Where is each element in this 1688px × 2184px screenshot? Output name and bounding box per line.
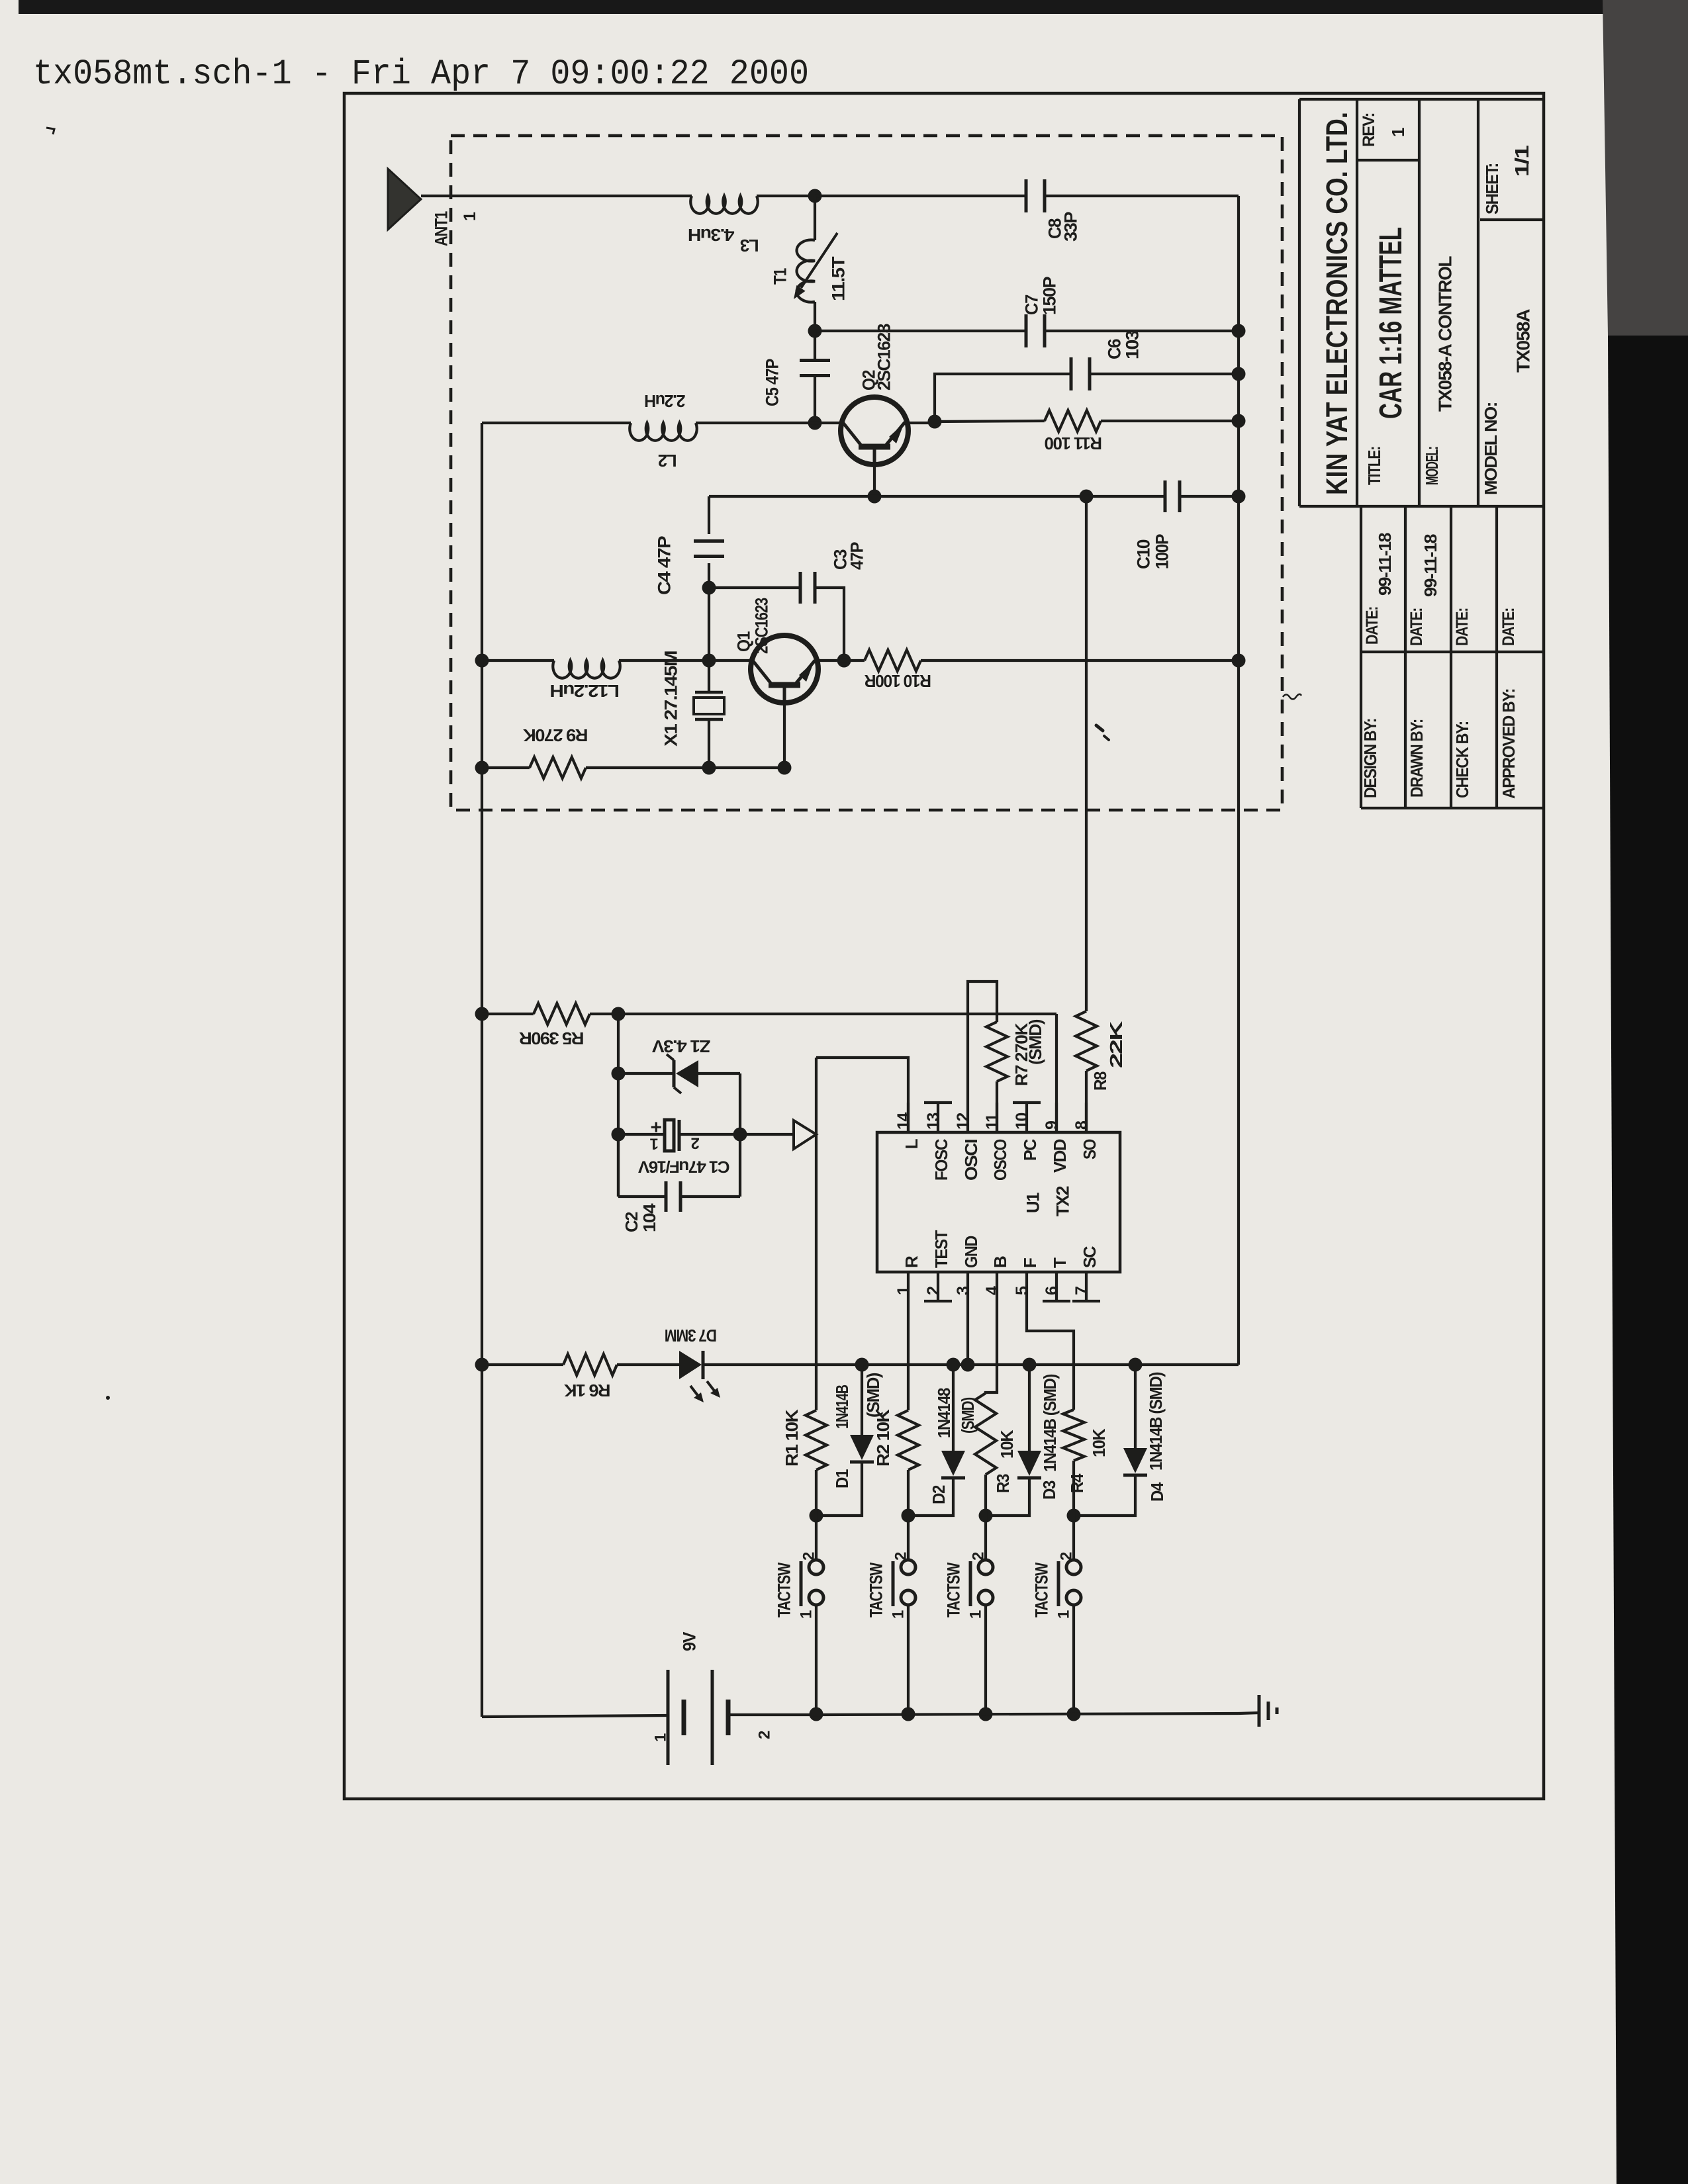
node: SW2/battery-rail junction xyxy=(902,1707,915,1721)
capacitor C6 xyxy=(1070,357,1073,390)
svg-text:F: F xyxy=(1020,1258,1040,1268)
svg-text:R11 100: R11 100 xyxy=(1045,433,1102,453)
node: D2 top junction xyxy=(947,1358,961,1372)
resistor R7 xyxy=(986,1022,1008,1081)
svg-text:47P: 47P xyxy=(847,542,867,570)
tact switch SW1 (TACTSW) xyxy=(809,1560,823,1574)
node: gnd rail/left-rail junction xyxy=(475,1358,489,1372)
wire: emitter node up and right to C6 xyxy=(935,374,1071,422)
wire: C2 row xyxy=(617,1134,620,1197)
svg-text:C7: C7 xyxy=(1022,295,1042,315)
resistor R1 (10K) xyxy=(806,1410,827,1470)
svg-text:TITLE:: TITLE: xyxy=(1364,447,1384,485)
svg-text:GND: GND xyxy=(961,1236,981,1268)
wire: Q2 base down to wire5 xyxy=(873,465,876,496)
svg-text:1: 1 xyxy=(967,1610,985,1619)
node: R5/Z1-network junction xyxy=(612,1007,626,1021)
IC pin 7 (SC) stub xyxy=(1085,1272,1088,1301)
svg-text:2SC1623: 2SC1623 xyxy=(874,324,894,390)
svg-text:TX058-A CONTROL: TX058-A CONTROL xyxy=(1434,256,1455,412)
title block: outer top edge xyxy=(1299,98,1544,101)
resistor R3 (10K) xyxy=(975,1393,996,1475)
svg-text:2: 2 xyxy=(800,1552,818,1561)
svg-text:L: L xyxy=(902,1138,921,1149)
resistor R2 (10K) xyxy=(898,1410,919,1470)
capacitor C4 xyxy=(694,539,724,543)
wire: R8 to pin 8 xyxy=(1085,1071,1088,1132)
wire: left rail to L1 xyxy=(482,659,554,662)
resistor R11 xyxy=(1045,410,1101,432)
node: R3/D3 junction xyxy=(979,1509,993,1523)
wire: X1 top lead xyxy=(708,660,710,692)
transistor Q2 (2SC1623) xyxy=(841,397,908,465)
node: Q1 base/wire7 junction xyxy=(778,761,792,775)
capacitor C3 xyxy=(799,572,802,604)
transformer T1 winding xyxy=(814,196,816,240)
wire: D2 branch top xyxy=(952,1365,955,1451)
wire: D4 bottom jog xyxy=(1074,1475,1135,1516)
wire: C3 node down to wire6 xyxy=(708,588,710,660)
svg-text:1: 1 xyxy=(890,1610,908,1619)
svg-text:R2 10K: R2 10K xyxy=(873,1409,893,1467)
svg-text:9V: 9V xyxy=(680,1632,700,1651)
node: Q1 emitter/C3/R10 junction xyxy=(837,654,851,668)
node: R4/D4 junction xyxy=(1067,1509,1081,1523)
wire: C5 to Q2 base node xyxy=(814,375,816,423)
svg-text:D1: D1 xyxy=(832,1469,852,1488)
wire: R4 to switch xyxy=(1072,1461,1075,1516)
IC pin 12 (OSCI) stub xyxy=(966,1103,969,1132)
svg-text:12: 12 xyxy=(954,1113,972,1130)
scan speck: apostrophe marks xyxy=(1096,725,1103,731)
IC pin 2 (TEST) stub xyxy=(937,1272,939,1301)
svg-text:2: 2 xyxy=(1058,1552,1076,1561)
title block: TITLE/MODEL column borders xyxy=(1418,99,1421,506)
wire: L-line vertical xyxy=(815,1058,818,1410)
svg-text:3: 3 xyxy=(954,1287,972,1295)
wire: left rail corner to L2 xyxy=(482,422,631,424)
svg-text:9: 9 xyxy=(1043,1121,1061,1130)
svg-text:10K: 10K xyxy=(1089,1428,1109,1457)
svg-text:1: 1 xyxy=(461,212,479,221)
capacitor C1 polar plate xyxy=(665,1120,674,1151)
wire: C1 row right xyxy=(679,1133,740,1136)
wire: X1 bottom to Q1 base xyxy=(709,766,784,769)
svg-text:REV:: REV: xyxy=(1360,113,1378,147)
wire: D2 bottom jog xyxy=(908,1478,953,1516)
svg-text:CAR 1:16 MATTEL: CAR 1:16 MATTEL xyxy=(1374,227,1409,419)
svg-text:X1 27.145M: X1 27.145M xyxy=(661,651,681,747)
svg-text:Q1: Q1 xyxy=(734,631,754,652)
resistor R10 xyxy=(865,650,921,671)
svg-text:PC: PC xyxy=(1020,1138,1040,1161)
resistor R8 xyxy=(1076,1011,1097,1071)
wire: left rail to R5 xyxy=(482,1013,534,1015)
diode D4 (1N4148 SMD) xyxy=(1123,1448,1147,1473)
wire: Z-network right column xyxy=(739,1073,741,1197)
scan speck: dot lower left xyxy=(106,1396,110,1400)
svg-text:14: 14 xyxy=(894,1113,913,1130)
wire: C6 to right rail xyxy=(1090,373,1239,375)
svg-text:C4 47P: C4 47P xyxy=(655,535,675,595)
svg-text:+: + xyxy=(651,1116,662,1138)
capacitor C5 xyxy=(800,359,830,362)
capacitor C1 second plate xyxy=(678,1120,681,1151)
wire: D4 branch top xyxy=(1134,1365,1137,1448)
wire: wire8 to VDD corner xyxy=(618,1013,1056,1015)
svg-text:1N414B (SMD): 1N414B (SMD) xyxy=(1146,1372,1166,1471)
node: wire7/left-rail junction xyxy=(475,761,489,775)
svg-text:MODEL NO:: MODEL NO: xyxy=(1481,402,1501,495)
svg-text:7: 7 xyxy=(1072,1287,1091,1295)
wire: C4 to C3 node xyxy=(708,563,710,588)
node: SW1/battery-rail junction xyxy=(810,1707,823,1721)
svg-text:R1 10K: R1 10K xyxy=(782,1409,802,1467)
capacitor C10 xyxy=(1164,480,1167,512)
title block: company cell borders xyxy=(1298,99,1301,506)
svg-text:DRAWN BY:: DRAWN BY: xyxy=(1407,719,1427,797)
wire: X1 bottom lead xyxy=(708,719,710,768)
svg-text:1: 1 xyxy=(798,1610,816,1619)
svg-text:R: R xyxy=(902,1255,921,1268)
wire: Q1 emitter to node xyxy=(818,659,844,662)
svg-text:99-11-18: 99-11-18 xyxy=(1375,533,1395,596)
antenna ANT1 symbol xyxy=(388,169,421,230)
IC pin 6 (T) stub xyxy=(1055,1272,1058,1301)
svg-text:R4: R4 xyxy=(1067,1473,1087,1493)
wire: L1 to X1 top xyxy=(619,659,709,662)
svg-text:10: 10 xyxy=(1013,1113,1031,1130)
wire: corner above C4 to Q2 base node xyxy=(709,495,874,498)
diode D2 (1N4148 SMD) xyxy=(941,1451,965,1476)
svg-text:C5 47P: C5 47P xyxy=(763,359,782,406)
node: D3 top junction xyxy=(1023,1358,1037,1372)
IC pin 5 (F) stub xyxy=(1025,1272,1028,1301)
wire: right rail (RF common) xyxy=(1237,196,1240,1365)
svg-text:D2: D2 xyxy=(929,1485,949,1504)
wire: C10 to right rail xyxy=(1180,495,1239,498)
svg-text:11: 11 xyxy=(983,1113,1002,1130)
IC pin 11 (OSCO) stub xyxy=(996,1103,998,1132)
svg-text:D4: D4 xyxy=(1147,1482,1167,1502)
svg-text:1N414B (SMD): 1N414B (SMD) xyxy=(1040,1374,1060,1472)
svg-text:D3: D3 xyxy=(1039,1480,1059,1500)
svg-text:B: B xyxy=(990,1256,1010,1268)
wire: D7 to gnd rail junctions xyxy=(703,1363,1239,1366)
wire: L-line top corner to pin 14 xyxy=(816,1058,908,1132)
svg-text:R6 1K: R6 1K xyxy=(564,1381,611,1400)
node: Q2 emitter/C6/R11 junction xyxy=(928,415,942,429)
svg-text:SHEET:: SHEET: xyxy=(1482,163,1502,214)
IC pin 4 (B) stub xyxy=(996,1272,998,1301)
wire: R2 to switch xyxy=(907,1470,910,1516)
IC pin 14 (L) stub xyxy=(907,1103,910,1132)
IC pin 8 (SO) stub xyxy=(1085,1103,1088,1132)
svg-text:11.5T: 11.5T xyxy=(829,256,849,301)
capacitor C7 xyxy=(1025,314,1028,347)
svg-text:TX2: TX2 xyxy=(1053,1187,1073,1216)
resistor R6 xyxy=(563,1354,617,1375)
svg-text:2: 2 xyxy=(756,1731,774,1739)
svg-text:6: 6 xyxy=(1043,1287,1061,1295)
battery BT1 9V plates xyxy=(667,1670,670,1765)
svg-text:33P: 33P xyxy=(1061,211,1081,242)
svg-text:104: 104 xyxy=(639,1203,659,1232)
svg-text:13: 13 xyxy=(924,1113,943,1130)
wire: Q2 base node to R8 branch node xyxy=(874,495,1086,498)
wire: D1 bottom jog xyxy=(816,1462,862,1516)
svg-text:R9 270K: R9 270K xyxy=(523,725,588,745)
svg-text:TX058A: TX058A xyxy=(1513,309,1533,373)
wire: node to R10 xyxy=(844,659,865,662)
svg-text:2.2uH: 2.2uH xyxy=(645,391,686,411)
svg-text:OSCO: OSCO xyxy=(990,1139,1010,1181)
wire: D1 branch top xyxy=(861,1365,863,1435)
node: C1 right junction xyxy=(733,1128,747,1142)
scan artifact: right black band xyxy=(1608,336,1688,2184)
IC pin 1 (R) stub xyxy=(907,1272,910,1301)
svg-text:1: 1 xyxy=(650,1135,659,1153)
node: Z1 row junction xyxy=(612,1067,626,1081)
crystal X1 body xyxy=(694,698,724,714)
wire: pin 1 down to R2 xyxy=(907,1301,910,1410)
ground symbol xyxy=(1258,1695,1261,1727)
node: SW3/battery-rail junction xyxy=(979,1707,993,1721)
wire: R7 to pin 11 xyxy=(996,1081,998,1132)
title block: REV separator xyxy=(1357,159,1419,161)
svg-text:2: 2 xyxy=(970,1552,988,1561)
svg-text:C2: C2 xyxy=(622,1212,641,1232)
capacitor C8 xyxy=(1025,179,1028,212)
wire: pin 5 down to R4 jog xyxy=(1027,1301,1074,1410)
svg-text:2: 2 xyxy=(691,1134,700,1152)
svg-text:TEST: TEST xyxy=(931,1230,951,1268)
svg-text:CHECK BY:: CHECK BY: xyxy=(1452,721,1472,798)
diode D3 (1N4148 SMD) xyxy=(1017,1451,1041,1476)
wire: left rail bottom corner to battery xyxy=(482,1715,668,1717)
svg-text:tx058mt.sch-1 - Fri Apr 7 09:: tx058mt.sch-1 - Fri Apr 7 09:00:22 2000 xyxy=(33,54,809,95)
wire: R1 to switch xyxy=(815,1470,818,1516)
wire: VDD corner down to pin 9 xyxy=(1055,1014,1058,1132)
node: R11/right-rail junction xyxy=(1232,414,1246,428)
node: D1 top junction xyxy=(855,1358,869,1372)
node: C1 row junction xyxy=(612,1128,626,1142)
wire: R10 to right rail xyxy=(921,659,1239,662)
node: T1 bottom junction xyxy=(808,324,822,338)
svg-text:1: 1 xyxy=(1055,1610,1073,1619)
wire: gnd-rail stub to ground xyxy=(1239,1713,1258,1713)
wire: Z1 row xyxy=(618,1072,674,1075)
wire: R3 to switch xyxy=(984,1475,987,1516)
buffer triangle xyxy=(794,1120,816,1149)
wire: switch SW2 to battery rail xyxy=(907,1605,910,1714)
wire: battery rail xyxy=(817,1713,1239,1715)
diode D1 (1N4148 SMD) xyxy=(850,1435,874,1460)
svg-text:FOSC: FOSC xyxy=(931,1138,951,1181)
node: wire1/T1 junction xyxy=(808,189,822,203)
node: D4 top junction xyxy=(1129,1358,1143,1372)
svg-text:1/1: 1/1 xyxy=(1512,145,1533,177)
svg-text:2: 2 xyxy=(892,1552,910,1561)
node: wire6/right-rail junction xyxy=(1232,654,1246,668)
svg-text:1: 1 xyxy=(1388,128,1408,137)
wire: Z-network left column xyxy=(617,1014,620,1197)
wire: R5 to Z1 node xyxy=(590,1013,618,1015)
svg-text:L2: L2 xyxy=(658,451,677,471)
wire: OSCI jog xyxy=(968,981,997,1103)
svg-text:5: 5 xyxy=(1013,1286,1031,1295)
node: R1/D1 junction xyxy=(810,1509,823,1523)
wire: left rail to R6 xyxy=(482,1363,563,1366)
svg-text:MODEL:: MODEL: xyxy=(1422,447,1442,485)
wire: T1 node to C8 xyxy=(815,195,1026,197)
svg-text:10K: 10K xyxy=(997,1430,1017,1459)
crystal X1 plates xyxy=(695,691,723,694)
transistor Q1 (2SC1623) xyxy=(751,635,818,703)
svg-text:DATE:: DATE: xyxy=(1363,607,1382,645)
node: wire3/right-rail junction xyxy=(1232,324,1246,338)
inductor L2 xyxy=(630,423,697,441)
wire: C3 node to C3 xyxy=(709,586,800,589)
scan artifact: top black bar xyxy=(19,0,1688,14)
wire: antenna to L3 xyxy=(421,195,692,197)
wire: battery to switch rail xyxy=(728,1713,817,1716)
IC pin 13 (FOSC) stub xyxy=(937,1103,939,1132)
IC pin 10 (PC) stub xyxy=(1025,1103,1028,1132)
svg-text:103: 103 xyxy=(1123,330,1143,359)
wire: C5 node to Q2 xyxy=(815,422,842,424)
wire: D3 branch top xyxy=(1028,1365,1031,1451)
wire: L2 to C5 node xyxy=(696,422,815,424)
node: wire5/right-rail junction xyxy=(1232,490,1246,504)
svg-text:VDD: VDD xyxy=(1050,1139,1070,1173)
svg-text:T: T xyxy=(1050,1257,1070,1268)
svg-text:U1: U1 xyxy=(1023,1193,1043,1213)
svg-text:L12.2uH: L12.2uH xyxy=(550,681,620,701)
svg-text:1: 1 xyxy=(894,1286,913,1295)
wire: R11 to right rail xyxy=(1101,420,1239,422)
tact switch SW3 (TACTSW) xyxy=(978,1560,993,1574)
wire: R9 to X1 bottom xyxy=(586,766,709,769)
svg-text:OSCI: OSCI xyxy=(961,1140,981,1181)
svg-text:DESIGN BY:: DESIGN BY: xyxy=(1360,719,1380,798)
wire: T1 bottom to C7 xyxy=(815,330,1027,332)
RF section dashed enclosure xyxy=(451,136,1282,810)
wire: T1 bottom to C5 xyxy=(814,331,816,361)
inductor L1 xyxy=(553,660,620,678)
wire: C7 to right rail xyxy=(1045,330,1239,332)
svg-text:Z1 4.3V: Z1 4.3V xyxy=(651,1036,710,1056)
wire: wire5 corner down to C4 xyxy=(708,496,710,534)
wire: C1 node to buffer xyxy=(740,1133,794,1136)
transformer T1 adjustment arrow xyxy=(801,233,837,288)
svg-text:R3: R3 xyxy=(993,1474,1013,1493)
title block: SHEET separator xyxy=(1480,218,1544,221)
node: wire6/left-rail junction xyxy=(475,654,489,668)
svg-text:8: 8 xyxy=(1072,1120,1091,1130)
svg-text:DATE:: DATE: xyxy=(1407,608,1426,646)
svg-text:100P: 100P xyxy=(1152,534,1172,569)
wire: switch SW3 to battery rail xyxy=(984,1605,987,1714)
node: X1/wire7 junction xyxy=(702,761,716,775)
drawing frame border xyxy=(344,93,1544,1799)
wire: L3 to T1 node xyxy=(757,195,815,197)
node: wire8/left-rail junction xyxy=(475,1007,489,1021)
node: wire4/right-rail junction xyxy=(1232,367,1246,381)
capacitor C2 xyxy=(665,1181,668,1212)
svg-text:ANT1: ANT1 xyxy=(432,211,451,246)
wire: X1 top to Q1 xyxy=(709,659,751,662)
wire: switch SW4 to battery rail xyxy=(1072,1605,1075,1714)
IC U1 body xyxy=(877,1132,1120,1272)
svg-text:SC: SC xyxy=(1080,1246,1100,1268)
wire: C8 to right rail corner xyxy=(1045,195,1239,197)
wire: Q1 base down xyxy=(783,703,786,768)
wire: left rail to R9 xyxy=(482,766,530,769)
node: R2/D2 junction xyxy=(902,1509,915,1523)
resistor R5 xyxy=(534,1003,590,1024)
svg-text:2: 2 xyxy=(924,1287,943,1295)
node: SW4/battery-rail junction xyxy=(1067,1707,1081,1721)
wire: left rail (battery+ distribution) xyxy=(481,423,483,1717)
svg-text:D7 3MM: D7 3MM xyxy=(665,1326,717,1345)
node: C4/C3 junction xyxy=(702,581,716,595)
tact switch SW4 (TACTSW) xyxy=(1066,1560,1081,1574)
node: X1 top junction xyxy=(702,654,716,668)
scan speck: mark under header xyxy=(46,128,54,134)
svg-text:DATE:: DATE: xyxy=(1453,608,1472,646)
svg-text:1N4148: 1N4148 xyxy=(934,1388,954,1438)
wire: pin 4 down to R3 jog xyxy=(986,1301,997,1394)
svg-text:2SC1623: 2SC1623 xyxy=(752,598,772,654)
svg-text:R5 390R: R5 390R xyxy=(519,1028,585,1048)
wire: R6 to D7 xyxy=(617,1363,679,1366)
svg-text:(SMD): (SMD) xyxy=(1025,1019,1045,1065)
svg-text:SO: SO xyxy=(1080,1139,1100,1160)
resistor R9 xyxy=(530,757,586,778)
wire: C3 to Q1 emitter node xyxy=(815,588,844,660)
LED D7 xyxy=(679,1351,702,1379)
wire: switch SW1 to battery rail xyxy=(815,1605,818,1714)
inductor L3 xyxy=(690,196,758,214)
svg-text:TACTSW: TACTSW xyxy=(774,1562,794,1617)
resistor R4 (10K) xyxy=(1063,1410,1084,1461)
svg-text:C1 47uF/16V: C1 47uF/16V xyxy=(638,1157,730,1175)
svg-text:150P: 150P xyxy=(1040,277,1060,315)
title block: by/date table borders xyxy=(1360,506,1362,808)
svg-text:22K: 22K xyxy=(1106,1021,1126,1068)
tact switch SW2 (TACTSW) xyxy=(901,1560,915,1574)
svg-text:99-11-18: 99-11-18 xyxy=(1421,534,1440,597)
wire: R8 node to C10 xyxy=(1086,495,1165,498)
svg-text:4.3uH: 4.3uH xyxy=(688,225,735,245)
svg-text:TACTSW: TACTSW xyxy=(944,1562,964,1617)
svg-text:KIN YAT ELECTRONICS CO. LTD.: KIN YAT ELECTRONICS CO. LTD. xyxy=(1320,112,1354,495)
node: Q2 base/wire5 junction xyxy=(868,490,882,504)
wire: wire5 down to R8 xyxy=(1085,496,1088,1011)
wire: Q2 emitter to R11 node xyxy=(908,422,935,424)
svg-text:C6: C6 xyxy=(1105,339,1125,359)
svg-text:DATE:: DATE: xyxy=(1499,608,1518,646)
svg-text:4: 4 xyxy=(983,1286,1002,1295)
svg-text:L3: L3 xyxy=(740,236,759,255)
svg-text:1: 1 xyxy=(652,1733,670,1742)
node: C5/base-wire junction xyxy=(808,416,822,430)
wire: pin 3 down to gnd rail xyxy=(966,1301,969,1365)
IC pin 3 (GND) stub xyxy=(966,1272,969,1301)
svg-text:TACTSW: TACTSW xyxy=(867,1562,886,1617)
wire: emitter node to R11 xyxy=(935,421,1045,422)
